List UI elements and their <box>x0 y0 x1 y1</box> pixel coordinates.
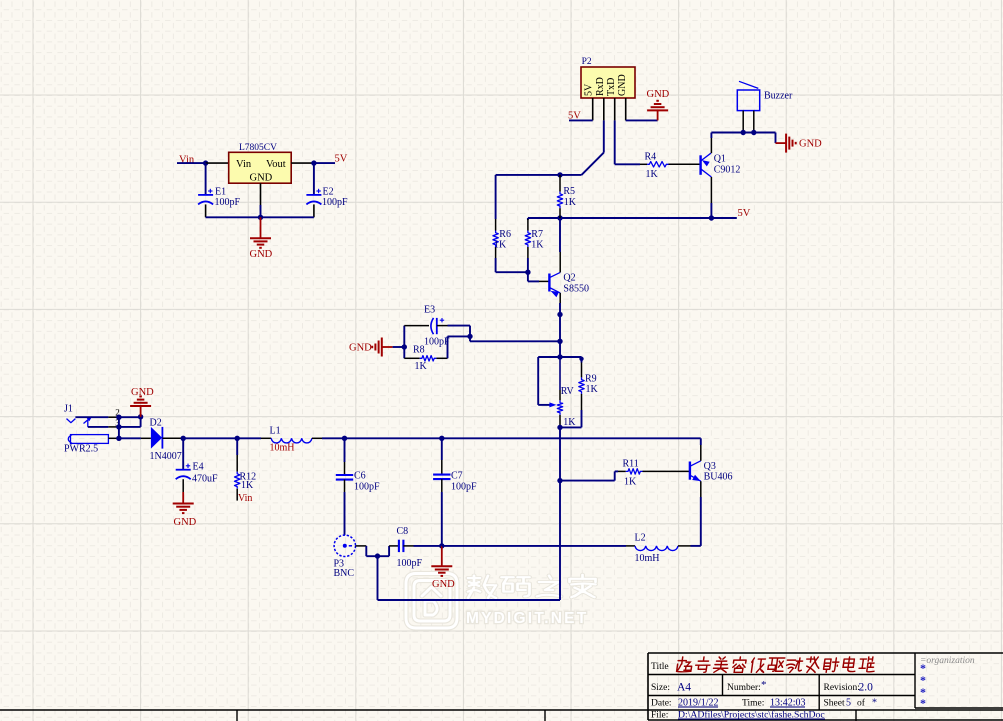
wire <box>378 599 561 601</box>
ground <box>182 492 184 504</box>
pin <box>700 481 702 497</box>
capacitor E4 <box>176 469 191 471</box>
svg-text:BNC: BNC <box>334 568 355 579</box>
ground <box>260 217 262 238</box>
transistor Q2 S8550 <box>548 274 550 292</box>
node <box>557 425 562 430</box>
pin 3 <box>108 426 119 428</box>
node buzzer pin1 <box>741 130 746 135</box>
node buzzer pin2 <box>751 130 756 135</box>
pin 3 <box>614 98 616 120</box>
node Vin junction <box>203 160 208 165</box>
capacitor C8 <box>398 540 400 552</box>
svg-text:Size:: Size: <box>651 683 670 693</box>
wire <box>140 417 142 427</box>
svg-text:J1: J1 <box>64 404 73 415</box>
wire <box>313 163 315 195</box>
svg-text:R8: R8 <box>413 344 425 355</box>
ground <box>441 546 443 566</box>
node E4 junction <box>181 436 186 441</box>
inductor L2 10mH <box>635 546 678 551</box>
svg-text:RV: RV <box>561 386 575 397</box>
wire <box>495 175 497 219</box>
node <box>579 357 583 361</box>
resistor R7 <box>527 219 529 231</box>
node <box>116 436 121 441</box>
pin 4 <box>625 98 627 120</box>
potentiometer RV 1K <box>549 402 556 407</box>
wire <box>205 163 207 195</box>
wire <box>711 132 775 134</box>
pin <box>742 111 744 133</box>
wire <box>414 545 442 547</box>
svg-text:R5: R5 <box>563 186 575 197</box>
node 5V junction <box>311 160 316 165</box>
svg-text:5V: 5V <box>584 83 595 96</box>
wire <box>527 272 529 281</box>
wire <box>559 427 561 480</box>
svg-text:GND: GND <box>174 517 197 528</box>
wire <box>559 315 561 342</box>
wire <box>614 163 616 164</box>
svg-text:2.0: 2.0 <box>859 682 874 694</box>
pin <box>559 252 561 272</box>
svg-text:C6: C6 <box>354 470 366 481</box>
svg-text:=organization: =organization <box>920 656 975 666</box>
pin <box>753 111 755 133</box>
svg-text:1K: 1K <box>564 197 577 208</box>
svg-text:C8: C8 <box>397 526 409 537</box>
wire <box>710 133 712 139</box>
svg-text:C9012: C9012 <box>714 164 741 175</box>
pin <box>678 545 691 547</box>
wire <box>559 303 561 315</box>
wire <box>442 545 626 547</box>
node RV junction <box>557 354 562 359</box>
transistor Q3 BU406 <box>689 462 691 480</box>
pin <box>205 204 207 217</box>
svg-text:Q3: Q3 <box>704 461 716 472</box>
wire <box>559 341 561 357</box>
wire <box>441 492 443 546</box>
svg-text:5V: 5V <box>335 154 348 165</box>
diode D2 1N4007 <box>151 427 162 449</box>
node C7 junction <box>439 436 444 441</box>
svg-text:GND: GND <box>617 74 628 96</box>
svg-text:PWR2.5: PWR2.5 <box>64 444 98 455</box>
svg-text:10mH: 10mH <box>270 442 295 453</box>
svg-text:C7: C7 <box>451 470 463 481</box>
wire <box>75 416 108 418</box>
svg-text:Q1: Q1 <box>714 154 726 165</box>
svg-text:MYDIGIT.NET: MYDIGIT.NET <box>466 610 588 627</box>
pin <box>206 162 229 164</box>
wire <box>365 546 367 556</box>
wire <box>447 336 449 358</box>
capacitor E2 <box>306 194 321 196</box>
wire <box>177 162 206 164</box>
wire <box>582 153 604 175</box>
wire <box>377 556 379 600</box>
wire <box>527 218 529 220</box>
svg-text:100pF: 100pF <box>354 481 380 492</box>
wire 5V rail <box>528 217 737 219</box>
wire <box>260 205 262 217</box>
ground <box>382 346 393 348</box>
wire <box>119 416 141 418</box>
wire <box>237 437 261 439</box>
node E3 R8 left junction <box>402 344 407 349</box>
wire <box>182 438 184 469</box>
pin <box>700 445 702 461</box>
node R5 bottom junction <box>557 215 562 220</box>
svg-text:*: * <box>920 696 926 710</box>
pin <box>312 437 322 439</box>
resistor R9 <box>581 363 583 378</box>
pin <box>261 437 271 439</box>
svg-text:Q2: Q2 <box>563 273 575 284</box>
pin <box>313 204 315 217</box>
svg-text:100pF: 100pF <box>451 481 477 492</box>
capacitor C6 <box>344 462 346 475</box>
node GND junction <box>258 215 263 220</box>
wire <box>393 346 405 348</box>
svg-text:L1: L1 <box>270 425 281 436</box>
capacitor E1 <box>198 194 213 196</box>
svg-text:Number:: Number: <box>727 683 761 693</box>
pin <box>626 545 635 547</box>
wire <box>448 325 471 327</box>
svg-text:R9: R9 <box>585 374 597 385</box>
pin <box>182 479 184 492</box>
svg-text:R7: R7 <box>531 229 543 240</box>
svg-text:Vin: Vin <box>236 159 252 170</box>
svg-text:Sheet: Sheet <box>824 699 845 709</box>
svg-text:GND: GND <box>349 343 372 354</box>
node <box>116 424 121 429</box>
pin <box>389 545 399 547</box>
svg-text:GND: GND <box>250 249 273 260</box>
svg-text:E3: E3 <box>424 305 435 316</box>
svg-text:1K: 1K <box>646 169 659 180</box>
wire <box>626 119 658 121</box>
wire <box>560 480 615 482</box>
node Q1 collector junction <box>709 215 714 220</box>
connector P3 BNC <box>334 535 355 556</box>
svg-text:Time:: Time: <box>742 699 764 709</box>
svg-text:Vin: Vin <box>238 493 252 504</box>
wire <box>527 258 529 272</box>
pin <box>162 437 183 439</box>
node R12 junction <box>235 436 240 441</box>
svg-text:D2: D2 <box>150 418 162 429</box>
transistor Q1 C9012 <box>699 155 701 175</box>
wire <box>581 410 583 427</box>
svg-text:*: * <box>761 679 767 691</box>
wire <box>559 218 561 252</box>
svg-text:*: * <box>872 698 877 709</box>
pin 1 <box>592 98 594 120</box>
wire <box>88 426 109 428</box>
resistor R8 <box>404 357 419 359</box>
pin <box>437 325 448 327</box>
svg-text:1K: 1K <box>494 240 507 251</box>
pin <box>141 437 151 439</box>
title block frame <box>0 653 1003 721</box>
wire <box>344 492 346 535</box>
node R5 top junction <box>557 172 562 177</box>
wire <box>344 438 346 462</box>
wire <box>700 438 702 445</box>
node <box>557 339 562 344</box>
pin <box>260 183 262 205</box>
wire <box>569 119 593 121</box>
wire <box>581 357 583 363</box>
node <box>557 312 562 317</box>
node C8 GND junction <box>439 543 444 548</box>
svg-text:1N4007: 1N4007 <box>150 451 182 462</box>
wire <box>322 437 345 439</box>
capacitor C7 <box>441 460 443 475</box>
svg-text:R6: R6 <box>499 229 511 240</box>
ground <box>776 142 787 144</box>
svg-text:R4: R4 <box>645 152 657 163</box>
svg-text:A4: A4 <box>677 682 691 694</box>
svg-text:1K: 1K <box>241 480 254 491</box>
svg-text:Vout: Vout <box>266 159 286 170</box>
node E3 R8 right junction <box>467 334 472 339</box>
svg-text:470uF: 470uF <box>192 474 218 485</box>
svg-text:GND: GND <box>432 579 455 590</box>
svg-text:File:: File: <box>651 711 668 721</box>
resistor R4 <box>640 163 647 165</box>
wire <box>403 326 405 359</box>
pin <box>355 545 366 547</box>
svg-text:E4: E4 <box>193 461 204 472</box>
node C6 junction <box>342 436 347 441</box>
svg-text:100pF: 100pF <box>397 558 423 569</box>
pin <box>403 545 413 547</box>
wire <box>442 437 701 439</box>
wire <box>560 356 582 358</box>
wire <box>119 437 141 439</box>
wire <box>495 258 497 272</box>
svg-text:P2: P2 <box>582 57 592 67</box>
node <box>116 415 121 420</box>
svg-text:TxD: TxD <box>606 78 617 96</box>
node <box>138 414 143 419</box>
svg-text:L7805CV: L7805CV <box>239 143 277 153</box>
wire <box>441 438 443 460</box>
svg-text:1K: 1K <box>415 361 428 372</box>
resistor R12 <box>236 455 238 472</box>
svg-text:1K: 1K <box>586 384 599 395</box>
svg-text:BU406: BU406 <box>704 472 733 483</box>
svg-text:R11: R11 <box>623 458 639 469</box>
voltage regulator U1 L7805CV <box>229 152 292 183</box>
wire <box>710 203 712 218</box>
resistor R11 <box>618 470 626 472</box>
wire <box>614 120 616 163</box>
svg-text:GND: GND <box>250 173 273 184</box>
capacitor E3 <box>431 318 434 334</box>
pin 2 <box>108 416 119 418</box>
svg-text:100pF: 100pF <box>424 336 450 347</box>
svg-text:RxD: RxD <box>595 77 606 96</box>
pin <box>539 280 549 282</box>
svg-text:5V: 5V <box>738 208 751 219</box>
wire <box>559 425 561 427</box>
title text 超声美容仪驱动发射电路 <box>676 657 875 672</box>
svg-text:L2: L2 <box>635 533 646 544</box>
pin 1 <box>108 437 119 439</box>
svg-text:Date:: Date: <box>651 699 672 709</box>
wire <box>538 356 560 358</box>
pin <box>291 162 314 164</box>
svg-text:100pF: 100pF <box>215 197 241 208</box>
ground <box>657 110 659 120</box>
wire <box>314 162 335 164</box>
pin <box>559 293 561 303</box>
buzzer LS1 <box>737 90 759 111</box>
svg-text:of: of <box>857 698 866 709</box>
wire <box>345 437 442 439</box>
wire <box>603 120 605 152</box>
inductor L1 10mH <box>271 438 312 443</box>
wire <box>206 216 314 218</box>
wire <box>183 437 237 439</box>
ground <box>140 406 142 417</box>
svg-text:S8550: S8550 <box>563 284 589 295</box>
svg-text:100pF: 100pF <box>322 197 348 208</box>
pin 2 <box>603 98 605 120</box>
svg-text:Title: Title <box>651 662 669 672</box>
wire <box>691 545 701 547</box>
node R6 R7 junction <box>525 270 530 275</box>
svg-text:10mH: 10mH <box>635 553 660 564</box>
svg-text:Buzzer: Buzzer <box>764 91 793 102</box>
resistor R6 <box>495 219 497 231</box>
wire <box>236 438 238 455</box>
wire <box>118 417 120 438</box>
wire <box>559 481 561 600</box>
pin <box>404 325 429 327</box>
svg-text:1K: 1K <box>531 240 544 251</box>
node R11 junction <box>557 478 562 483</box>
svg-text:1K: 1K <box>624 476 637 487</box>
svg-text:GND: GND <box>131 387 154 398</box>
node <box>375 553 380 558</box>
resistor R5 <box>559 175 561 192</box>
wire <box>469 336 471 341</box>
svg-text:5: 5 <box>846 698 851 709</box>
wire <box>775 133 777 144</box>
svg-text:Revision:: Revision: <box>824 683 860 693</box>
watermark mydigit logo <box>406 574 457 629</box>
svg-text:GND: GND <box>799 139 822 150</box>
svg-text:GND: GND <box>647 89 670 100</box>
